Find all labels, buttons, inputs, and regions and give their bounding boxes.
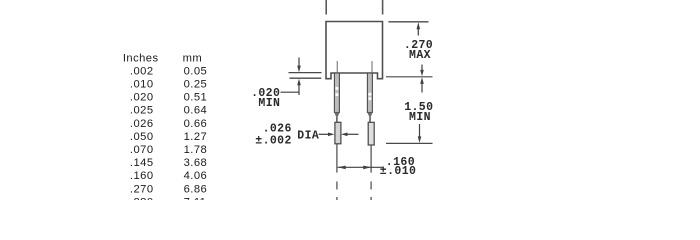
dimension .026 DIA label	[255, 122, 319, 147]
svg-text:4.06: 4.06	[184, 170, 208, 182]
svg-text:.025: .025	[130, 105, 154, 117]
dimension .020 MIN extension line bottom	[290, 77, 322, 79]
svg-text:.010: .010	[130, 79, 154, 91]
svg-text:.002: .002	[130, 65, 154, 77]
lead tip extension line	[386, 142, 433, 144]
lead stub inside body right	[371, 61, 373, 73]
conversion table header	[123, 52, 207, 208]
svg-text:.145: .145	[130, 157, 154, 169]
svg-text:.020: .020	[130, 92, 154, 104]
svg-text:6.86: 6.86	[184, 183, 208, 195]
dimension .160 line	[338, 166, 383, 168]
right lead centerline dash 1	[370, 182, 372, 190]
left lead neck	[336, 117, 338, 123]
svg-text:.160: .160	[130, 170, 154, 182]
right lead taper	[367, 113, 372, 117]
seating plane extension line	[386, 76, 433, 78]
right lead wire block	[368, 122, 374, 145]
dimension .270 MAX down arrow	[420, 65, 424, 77]
right lead crimp sleeve	[367, 73, 372, 113]
svg-text:±.002: ±.002	[255, 135, 292, 148]
dimension .160 label	[380, 156, 417, 178]
dimension 1.50 MIN up arrow	[420, 77, 424, 92]
right lead tail	[370, 145, 372, 173]
dimension .270 MAX up arrow	[417, 22, 421, 35]
svg-text:MAX: MAX	[409, 49, 431, 62]
dimension .020 MIN label	[251, 87, 280, 110]
svg-text:1.27: 1.27	[184, 131, 208, 143]
dimension .026 DIA leader and left arrow	[319, 133, 335, 137]
dimension .026 DIA right arrow	[341, 133, 359, 137]
svg-text:0.66: 0.66	[184, 118, 208, 130]
dimension .020 MIN lower arrow	[297, 79, 301, 95]
upper view extension line right	[382, 0, 384, 15]
left lead taper	[334, 113, 339, 117]
left lead tail	[336, 144, 338, 173]
dimension 1.50 MIN label	[404, 101, 433, 124]
svg-text:MIN: MIN	[409, 111, 431, 124]
svg-text:.026: .026	[130, 118, 154, 130]
dimension .270 MAX top extension line	[388, 21, 428, 23]
left lead centerline dash 2	[336, 197, 338, 200]
svg-text:1.78: 1.78	[184, 144, 208, 156]
dimension .270 MAX label	[404, 39, 433, 62]
svg-text:0.51: 0.51	[184, 92, 208, 104]
svg-text:.270: .270	[130, 183, 154, 195]
svg-text:±.010: ±.010	[380, 165, 417, 178]
dimension .160 left arrowhead	[338, 166, 346, 170]
svg-text:0.64: 0.64	[184, 105, 208, 117]
svg-text:MIN: MIN	[258, 97, 280, 110]
right lead centerline dash 2	[370, 197, 372, 200]
dimension .020 MIN upper arrow	[297, 58, 301, 73]
svg-text:7.11: 7.11	[184, 196, 207, 200]
component body outline	[326, 22, 383, 79]
left lead wire block	[335, 122, 341, 144]
dimension 1.50 MIN down arrow	[418, 124, 422, 143]
svg-text:mm: mm	[183, 52, 203, 64]
dimension .020 MIN extension line top	[289, 72, 322, 74]
dimension .160 right arrowhead	[363, 166, 371, 170]
left lead centerline dash 1	[336, 182, 338, 190]
svg-text:.280: .280	[130, 196, 154, 200]
svg-text:0.25: 0.25	[184, 79, 208, 91]
right lead neck	[369, 117, 371, 123]
svg-text:DIA: DIA	[297, 129, 319, 142]
dimension .020 MIN leader	[281, 91, 300, 93]
svg-text:.070: .070	[130, 144, 154, 156]
svg-text:0.05: 0.05	[184, 65, 208, 77]
svg-text:Inches: Inches	[123, 52, 159, 64]
svg-text:.050: .050	[130, 131, 154, 143]
lead stub inside body left	[336, 61, 338, 73]
upper view extension line left	[325, 0, 327, 15]
svg-text:3.68: 3.68	[184, 157, 208, 169]
left lead crimp sleeve	[334, 73, 339, 113]
svg-text:.026: .026	[263, 122, 292, 135]
